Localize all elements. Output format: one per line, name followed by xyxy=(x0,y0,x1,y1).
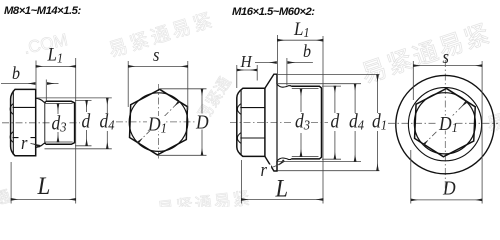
right thread minor line bottom xyxy=(292,156,319,158)
right flange cone bottom xyxy=(265,156,277,171)
left shoulder + fillet top xyxy=(36,98,46,102)
dim s left: line with arrows xyxy=(128,65,188,67)
right head facet line lower xyxy=(240,137,265,139)
right threaded shank outline xyxy=(291,86,321,159)
dim D right: line with arrows xyxy=(411,199,482,201)
svg-text:d4: d4 xyxy=(100,111,115,133)
dim d: vertical with arrows xyxy=(334,86,336,113)
right head facet line upper xyxy=(240,107,265,109)
svg-text:s: s xyxy=(153,44,160,65)
right head chamfer vertical line xyxy=(240,90,242,156)
svg-text:易: 易 xyxy=(485,111,500,135)
left shoulder + fillet bottom xyxy=(36,143,46,147)
right second circle xyxy=(408,88,481,161)
right hexagon xyxy=(415,88,476,156)
right head facet arc lower xyxy=(237,133,241,144)
dim s right: line with arrows xyxy=(413,65,482,67)
svg-text:D: D xyxy=(195,112,209,134)
centerline left side view xyxy=(2,122,80,124)
svg-text:L: L xyxy=(275,175,288,202)
dim D1 right: diagonal dashed line with arrows xyxy=(423,102,466,145)
left head facet arc upper xyxy=(10,104,13,115)
svg-text:L1: L1 xyxy=(293,18,309,40)
svg-text:d3: d3 xyxy=(52,113,67,135)
dim L left: ext line left xyxy=(10,162,12,204)
dim s left: ext lines xyxy=(127,61,129,107)
svg-text:d3: d3 xyxy=(295,111,310,133)
svg-text:M8×1~M14×1.5:: M8×1~M14×1.5: xyxy=(4,5,81,17)
svg-text:s: s xyxy=(443,46,450,67)
svg-text:r: r xyxy=(261,159,268,180)
svg-text:M16×1.5~M60×2:: M16×1.5~M60×2: xyxy=(232,6,315,18)
svg-text:L: L xyxy=(37,172,51,200)
left head facet arc lower xyxy=(10,132,13,143)
dim d1 right: ext lines xyxy=(278,74,380,76)
dim D1 left: diagonal dashed line with arrows xyxy=(138,101,180,143)
dim L right: line with arrows xyxy=(241,199,323,201)
svg-text:易紧通易紧: 易紧通易紧 xyxy=(106,9,218,62)
dim b right: arrow lines xyxy=(255,62,276,64)
dim D left: ext lines horizontal xyxy=(159,88,206,90)
centerline vertical left end view xyxy=(157,84,159,161)
label D left (halo) xyxy=(196,114,209,130)
dim b right: ext line xyxy=(286,58,288,86)
dim D right: ext line left xyxy=(410,150,412,204)
dim d4: vertical with arrows xyxy=(354,84,356,113)
left hex head outline xyxy=(11,89,36,155)
svg-text:r: r xyxy=(21,132,28,153)
dim L1 left: ext lines xyxy=(35,61,37,89)
svg-text:b: b xyxy=(12,63,20,83)
right outer flange circle xyxy=(396,75,494,173)
label d3 right xyxy=(294,114,311,129)
right head facet arc upper xyxy=(237,104,241,115)
label d3 left xyxy=(50,117,68,133)
dim b left: extension line xyxy=(45,80,47,102)
label r left with leader xyxy=(30,143,40,146)
left threaded shank outline xyxy=(46,101,75,144)
dim d4 right: ext lines xyxy=(278,83,362,85)
right flange cone top xyxy=(265,74,277,88)
left thread start vertical xyxy=(44,102,46,145)
dim L1 right: line with arrows xyxy=(277,39,323,41)
svg-text:b: b xyxy=(303,41,311,61)
dim d left: vertical with arrows xyxy=(86,100,88,112)
centerline horizontal left end view xyxy=(116,121,206,123)
label D1 left (halo) xyxy=(147,116,165,131)
dim d4 left: vertical with arrows xyxy=(106,98,108,113)
right groove fillet top xyxy=(277,84,291,87)
dim d1: vertical with arrows xyxy=(377,75,379,113)
label D1 right (halo) xyxy=(437,116,456,131)
left head facet line upper xyxy=(13,106,36,108)
left thread minor line top xyxy=(45,103,73,105)
svg-text:d1: d1 xyxy=(372,111,387,133)
dim L1 left: line with arrows xyxy=(36,65,76,67)
dim L1 right: ext lines xyxy=(276,35,278,84)
dim L left: line with arrows xyxy=(11,198,76,200)
centerline horizontal right end view xyxy=(388,122,498,124)
dim b left: arrow lines xyxy=(1,83,35,85)
svg-text:d4: d4 xyxy=(349,111,364,133)
svg-text:d: d xyxy=(331,111,340,133)
dim D left: vertical line with arrows xyxy=(201,89,203,156)
right hex head outline xyxy=(237,88,265,156)
svg-text:通: 通 xyxy=(0,187,13,207)
left hexagon xyxy=(130,89,188,155)
dim H right: ext lines xyxy=(236,65,238,88)
dim L right: ext line left xyxy=(240,160,242,204)
dim s right: ext lines xyxy=(412,61,414,100)
dim H: line with arrows xyxy=(237,69,257,71)
right flange face xyxy=(276,74,278,171)
label r right with leader xyxy=(271,161,284,168)
svg-text:D: D xyxy=(442,178,456,200)
dim d4 left: ext lines xyxy=(37,97,112,99)
left inscribed circle D1 xyxy=(129,93,188,152)
dim d3 left: arrows inside shank xyxy=(57,104,59,114)
left head facet line lower xyxy=(13,137,36,139)
left head chamfer vertical line xyxy=(12,91,14,155)
dim d3 right: arrows inside shank xyxy=(300,89,302,112)
right D1 circle xyxy=(414,93,475,154)
right groove fillet bottom xyxy=(277,158,291,161)
right thread minor line top xyxy=(292,88,319,90)
centerline vertical right end view xyxy=(444,60,446,194)
svg-text:d: d xyxy=(82,111,91,133)
centerline right side view xyxy=(230,122,328,124)
svg-text:H: H xyxy=(240,51,253,71)
dim d right: ext lines xyxy=(322,85,341,87)
dim d left: ext lines xyxy=(75,99,92,101)
svg-text:易紧通易紧: 易紧通易紧 xyxy=(156,189,253,207)
left thread minor line bottom xyxy=(45,141,73,143)
